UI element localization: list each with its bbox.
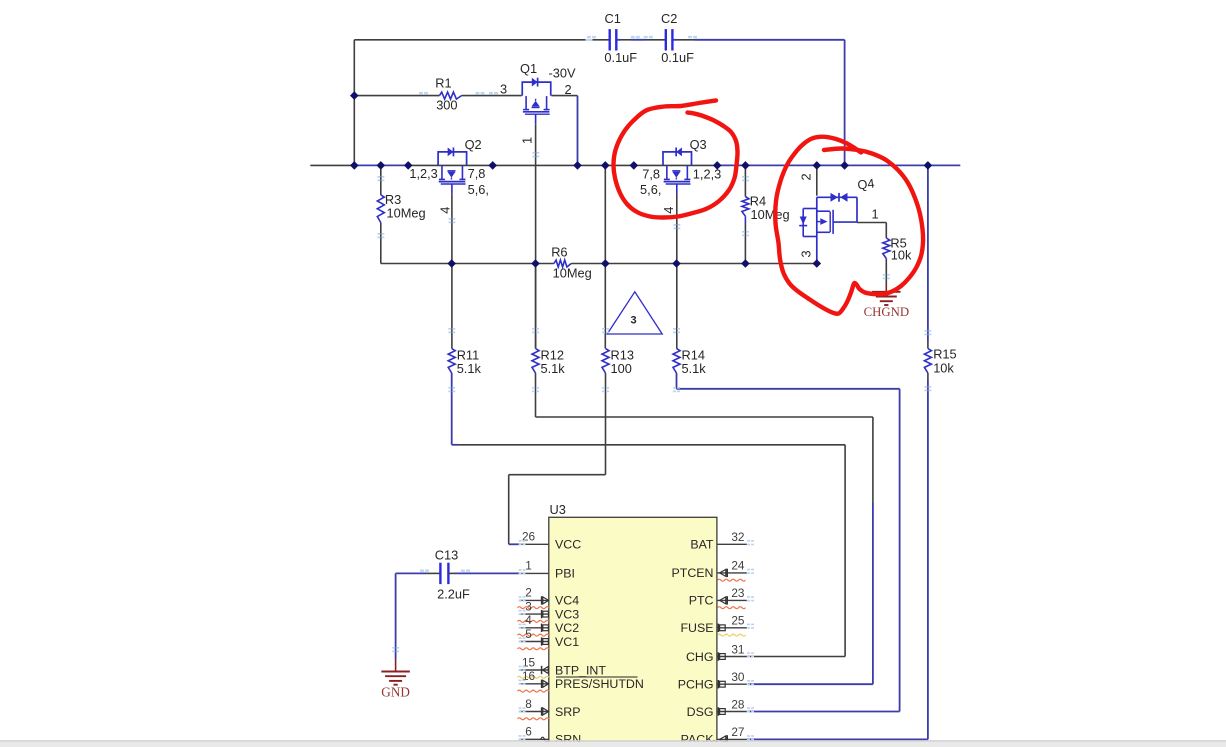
svg-text:C13: C13 xyxy=(435,548,458,563)
svg-text:1: 1 xyxy=(525,559,532,573)
svg-text:1: 1 xyxy=(872,206,879,221)
svg-text:10Meg: 10Meg xyxy=(553,266,592,281)
svg-text:4: 4 xyxy=(438,207,453,214)
svg-text:PTC: PTC xyxy=(689,594,714,608)
svg-text:R15: R15 xyxy=(933,347,956,362)
svg-text:C2: C2 xyxy=(661,11,677,26)
svg-text:2: 2 xyxy=(525,586,532,600)
svg-text:1,2,3: 1,2,3 xyxy=(409,166,437,181)
svg-text:PBI: PBI xyxy=(555,567,575,581)
svg-text:5: 5 xyxy=(525,627,532,641)
svg-text:5.1k: 5.1k xyxy=(541,361,566,376)
svg-text:VCC: VCC xyxy=(555,538,581,552)
svg-text:3: 3 xyxy=(525,599,532,613)
svg-text:CHG: CHG xyxy=(686,650,714,664)
svg-text:VC1: VC1 xyxy=(555,635,579,649)
svg-text:R1: R1 xyxy=(435,76,451,91)
svg-text:SRP: SRP xyxy=(555,705,580,719)
svg-text:5,6,: 5,6, xyxy=(468,182,489,197)
svg-text:Q3: Q3 xyxy=(690,137,707,152)
svg-text:VC4: VC4 xyxy=(555,594,579,608)
svg-text:BTP_INT: BTP_INT xyxy=(555,663,606,677)
svg-text:300: 300 xyxy=(436,98,457,113)
svg-text:0.1uF: 0.1uF xyxy=(661,50,694,65)
svg-text:1: 1 xyxy=(520,137,535,144)
svg-text:8: 8 xyxy=(525,697,532,711)
svg-text:3: 3 xyxy=(630,315,636,327)
svg-text:3: 3 xyxy=(799,250,814,257)
svg-text:FUSE: FUSE xyxy=(680,621,713,635)
svg-text:BAT: BAT xyxy=(690,538,714,552)
svg-text:100: 100 xyxy=(611,361,632,376)
svg-text:7,8: 7,8 xyxy=(468,166,486,181)
svg-text:PTCEN: PTCEN xyxy=(672,566,714,580)
svg-text:3: 3 xyxy=(500,82,507,97)
svg-text:10Meg: 10Meg xyxy=(387,206,426,221)
svg-text:PCHG: PCHG xyxy=(678,678,714,692)
svg-text:10k: 10k xyxy=(933,360,954,375)
svg-text:25: 25 xyxy=(731,614,745,628)
svg-text:4: 4 xyxy=(661,207,676,214)
svg-text:6: 6 xyxy=(525,725,532,739)
svg-text:DSG: DSG xyxy=(687,705,714,719)
svg-text:Q4: Q4 xyxy=(857,176,876,193)
svg-text:10Meg: 10Meg xyxy=(751,207,790,222)
svg-text:CHGND: CHGND xyxy=(864,305,910,319)
svg-text:28: 28 xyxy=(731,697,745,711)
svg-text:2: 2 xyxy=(799,173,814,180)
svg-text:0.1uF: 0.1uF xyxy=(604,50,637,65)
svg-text:Q2: Q2 xyxy=(465,137,482,152)
svg-text:2.2uF: 2.2uF xyxy=(437,587,470,602)
svg-text:C1: C1 xyxy=(605,11,621,26)
svg-text:27: 27 xyxy=(731,725,744,739)
svg-text:23: 23 xyxy=(731,586,745,600)
svg-text:R6: R6 xyxy=(551,245,567,260)
svg-text:5.1k: 5.1k xyxy=(457,361,482,376)
svg-text:Q1: Q1 xyxy=(520,61,537,76)
svg-text:5.1k: 5.1k xyxy=(682,361,707,376)
svg-text:U3: U3 xyxy=(550,502,566,517)
svg-text:4: 4 xyxy=(525,613,532,627)
svg-text:2: 2 xyxy=(565,82,572,97)
svg-text:24: 24 xyxy=(731,559,745,573)
svg-text:32: 32 xyxy=(731,530,744,544)
svg-text:VC3: VC3 xyxy=(555,607,579,621)
svg-text:7,8: 7,8 xyxy=(642,166,660,181)
svg-text:GND: GND xyxy=(381,685,410,700)
svg-text:-30V: -30V xyxy=(549,66,576,81)
svg-text:PRES/SHUTDN: PRES/SHUTDN xyxy=(555,677,644,691)
svg-text:VC2: VC2 xyxy=(555,621,579,635)
svg-text:30: 30 xyxy=(731,670,745,684)
svg-text:5,6,: 5,6, xyxy=(640,182,661,197)
svg-text:31: 31 xyxy=(731,642,744,656)
svg-text:10k: 10k xyxy=(891,248,912,263)
